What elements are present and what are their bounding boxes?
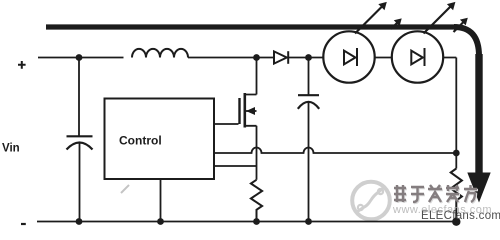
MOSFET Q1 body arrow [246,110,257,112]
watermark slash [121,185,129,193]
svg-text:Vin: Vin [2,143,20,155]
wire: + to inductor [38,57,124,59]
watermark logo circle [352,182,390,220]
wire: gate [214,123,239,125]
wire between LEDs [375,57,393,59]
MOSFET Q1 gate bar [238,98,240,124]
wire: inductor to diode [188,57,274,59]
diode D1 [274,51,288,64]
LED arrow short DL2 [454,22,465,33]
wire: LED string to sense branch [443,58,456,169]
MOSFET Q1 drain lead [245,58,257,95]
thick output power rail (top) [46,24,457,29]
wire: source return [214,165,257,167]
LED arrow short DL1 [391,22,398,29]
+ terminal [18,61,26,69]
wire: control ground [160,179,162,222]
LED arrow long DL2 [424,6,452,34]
input capacitor C1 [78,58,80,137]
output capacitor C2 [308,58,310,96]
node: input junction dot [76,54,83,61]
thick rail vertical [475,54,482,174]
MOSFET Q1 channel bar [244,93,247,128]
svg-text:Control: Control [119,134,162,148]
svg-text:ELECfans.com: ELECfans.com [421,210,500,222]
resistor R2 sense [451,169,462,222]
- terminal [21,223,26,225]
wire: diode to cap node [288,57,324,59]
LED circle DL2 [392,31,443,82]
resistor R1 [251,180,262,222]
node: feedback tap dot [453,150,460,157]
node: drain dot [253,54,260,61]
control box U1 [105,99,215,180]
bottom rail [37,221,458,223]
thick rail corner bend [454,27,479,56]
LED arrow long DL1 [355,6,383,34]
watermark CJK-like glyphs [394,185,478,203]
wire: feedback with hops [214,148,456,154]
MOSFET Q1 source lead [245,126,257,180]
node: output cap dot [305,54,312,61]
LED circle DL1 [323,31,374,82]
node: rail dots [76,218,83,225]
thick rail arrowhead [467,173,490,203]
inductor L1 [132,49,188,58]
